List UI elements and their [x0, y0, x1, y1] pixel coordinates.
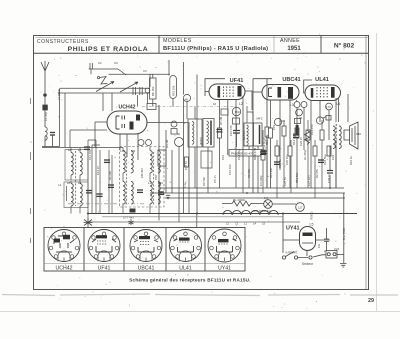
svg-text:C20 10n: C20 10n	[285, 154, 289, 165]
svg-text:R2 27k: R2 27k	[315, 169, 319, 178]
svg-text:C13 2n: C13 2n	[96, 166, 100, 175]
svg-text:C17 1n: C17 1n	[242, 131, 246, 140]
svg-text:40000: 40000	[199, 137, 203, 145]
svg-text:Secteur: Secteur	[302, 262, 314, 266]
svg-text:117: 117	[298, 206, 303, 210]
svg-text:CM 452: CM 452	[140, 168, 144, 178]
svg-text:C24: C24	[334, 247, 340, 251]
svg-text:PHILIPS ET RADIOLA: PHILIPS ET RADIOLA	[68, 46, 149, 53]
svg-text:R4 1M: R4 1M	[165, 139, 169, 148]
svg-text:C28 2n: C28 2n	[327, 174, 331, 183]
svg-text:L1: L1	[244, 222, 248, 226]
svg-text:C11 150: C11 150	[88, 149, 92, 160]
svg-text:L11: L11	[131, 149, 136, 153]
svg-text:L5: L5	[310, 223, 314, 227]
svg-text:UBC41: UBC41	[282, 77, 300, 83]
svg-text:160: 160	[235, 110, 240, 114]
svg-text:L2: L2	[226, 222, 230, 226]
svg-text:R16 1k: R16 1k	[349, 156, 353, 165]
svg-text:L4: L4	[58, 183, 62, 187]
svg-text:C5 1n: C5 1n	[213, 175, 217, 183]
svg-text:46: 46	[299, 116, 303, 120]
svg-text:L10: L10	[120, 149, 125, 153]
svg-text:C1 47p: C1 47p	[44, 112, 48, 121]
svg-text:UF41: UF41	[230, 78, 244, 84]
svg-text:C18 25µ: C18 25µ	[237, 149, 241, 160]
svg-text:R6 50k: R6 50k	[202, 177, 206, 186]
svg-text:L3: L3	[235, 222, 239, 226]
svg-text:C16 100: C16 100	[228, 164, 232, 175]
svg-text:L12: L12	[148, 181, 153, 185]
svg-text:C4 100p: C4 100p	[259, 175, 263, 186]
svg-text:MF 452: MF 452	[151, 86, 155, 96]
svg-text:R14 150: R14 150	[310, 124, 314, 135]
svg-text:UBC41: UBC41	[138, 266, 155, 272]
svg-text:CH: CH	[317, 244, 321, 248]
svg-text:BF111U (Philips) - RA15 U (Rad: BF111U (Philips) - RA15 U (Radiola)	[163, 46, 268, 52]
svg-text:R1 20k: R1 20k	[108, 171, 112, 180]
svg-text:R13 50k: R13 50k	[295, 172, 299, 183]
svg-text:R5: R5	[158, 182, 162, 186]
svg-text:L5: L5	[262, 222, 266, 226]
svg-text:UCH42: UCH42	[55, 266, 72, 272]
svg-text:N° 802: N° 802	[334, 42, 355, 50]
svg-text:C25 5n: C25 5n	[283, 177, 287, 186]
svg-text:CTT 443: CTT 443	[123, 216, 134, 220]
svg-text:0.1µ: 0.1µ	[183, 182, 187, 188]
svg-text:C3: C3	[143, 69, 147, 73]
svg-text:CONSTRUCTEURS: CONSTRUCTEURS	[37, 39, 89, 45]
svg-text:16: 16	[213, 102, 217, 106]
svg-text:170: 170	[326, 105, 331, 109]
svg-text:UCH42: UCH42	[118, 105, 135, 111]
svg-text:ANNEE: ANNEE	[280, 38, 300, 44]
svg-text:R15 1k: R15 1k	[278, 159, 282, 168]
svg-text:R.L. 7000: R.L. 7000	[342, 227, 346, 240]
svg-text:1951: 1951	[287, 46, 301, 52]
svg-text:L7: L7	[78, 148, 82, 152]
svg-text:FL5: FL5	[280, 119, 285, 123]
svg-text:C23: C23	[331, 154, 335, 160]
svg-text:C19: C19	[272, 124, 276, 130]
svg-text:R9 0.47M: R9 0.47M	[253, 147, 257, 160]
svg-text:RL 200Ω: RL 200Ω	[233, 198, 246, 202]
svg-text:L6: L6	[68, 148, 72, 152]
svg-text:29: 29	[368, 298, 374, 304]
svg-text:C10 470: C10 470	[229, 125, 233, 136]
svg-text:R15 10k: R15 10k	[172, 85, 176, 96]
svg-text:L4: L4	[253, 222, 257, 226]
svg-text:C2: C2	[98, 61, 102, 65]
svg-text:C15 5n: C15 5n	[184, 161, 188, 170]
svg-text:MF2: MF2	[257, 117, 263, 121]
svg-text:L3: L3	[290, 103, 294, 107]
svg-text:Schéma général des récepteurs: Schéma général des récepteurs BF111U et …	[129, 278, 251, 283]
svg-text:60: 60	[177, 132, 181, 136]
svg-text:INTERR.: INTERR.	[286, 251, 298, 255]
svg-text:UL41: UL41	[179, 266, 192, 272]
svg-text:R12 0.1M: R12 0.1M	[292, 132, 296, 145]
svg-text:L9: L9	[78, 181, 82, 185]
svg-text:R10 47k: R10 47k	[265, 134, 269, 145]
svg-text:C22 50µ: C22 50µ	[323, 154, 327, 165]
svg-text:PADDER 82-470: PADDER 82-470	[231, 152, 254, 156]
svg-text:L8: L8	[67, 181, 71, 185]
svg-text:MODELES: MODELES	[163, 38, 192, 44]
svg-text:F: F	[324, 250, 326, 254]
svg-text:POT: POT	[154, 174, 158, 180]
svg-text:AL 470p: AL 470p	[303, 149, 307, 160]
svg-text:UY41: UY41	[286, 226, 300, 232]
svg-text:C16: C16	[221, 154, 225, 160]
svg-text:C26 2n: C26 2n	[299, 137, 303, 146]
svg-text:LT NOIR: LT NOIR	[57, 89, 61, 100]
svg-text:UF41: UF41	[98, 266, 111, 272]
svg-text:R8 300: R8 300	[247, 169, 251, 178]
svg-text:1,9: 1,9	[264, 196, 268, 200]
svg-text:L4: L4	[337, 102, 341, 106]
svg-text:7000Ω: 7000Ω	[310, 212, 314, 220]
svg-text:UL41: UL41	[315, 77, 329, 83]
svg-text:A/N ORM 6V: A/N ORM 6V	[253, 209, 270, 213]
svg-text:R11 2M: R11 2M	[269, 168, 273, 178]
svg-text:UY41: UY41	[218, 266, 231, 272]
svg-text:R7 2M: R7 2M	[219, 116, 223, 125]
svg-text:S15: S15	[356, 132, 361, 136]
svg-text:45: 45	[185, 98, 189, 102]
svg-text:CV: CV	[114, 61, 118, 65]
svg-text:C27 10n: C27 10n	[307, 175, 311, 186]
svg-text:L2: L2	[239, 102, 243, 106]
